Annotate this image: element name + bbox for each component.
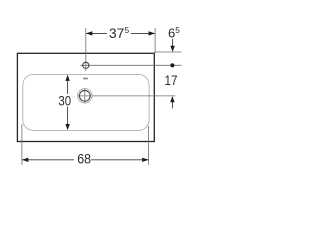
dim 17: dot marker at faucet centerline (170, 63, 174, 67)
drain outer circle (78, 89, 92, 103)
svg-text:5: 5 (125, 25, 130, 35)
faucet hole centerline vertical (extension for 37.5 dim) (85, 28, 87, 71)
dim 6.5: top extension line from rect corner (154, 51, 181, 53)
svg-text:5: 5 (175, 25, 180, 35)
dim 37.5: dimension line right segment (131, 32, 155, 34)
dim 37.5: dimension line left segment (86, 32, 107, 34)
dim 68: right extension line (148, 126, 150, 165)
dim 68: left extension line (21, 124, 23, 165)
dim 30: value label (58, 92, 71, 108)
drain crosshair vertical (84, 89, 86, 103)
svg-text:17: 17 (165, 72, 178, 88)
dim 37.5: value label 37 with superscript 5 (109, 25, 130, 41)
faucet hole centerline horizontal (extension for 6.5 dim) (80, 64, 181, 66)
dim 37.5: left arrowhead (86, 31, 92, 35)
faucet hole circle (83, 62, 89, 68)
overflow slot (83, 78, 88, 80)
svg-text:37: 37 (109, 25, 125, 41)
drain centerline horizontal (extension for 17 dim) (78, 95, 176, 97)
svg-text:6: 6 (168, 26, 175, 41)
dim 30: up arrowhead with tail (65, 75, 69, 94)
svg-text:30: 30 (58, 92, 71, 108)
dim 17: value label (165, 72, 178, 88)
dim 68: dimension line right segment (91, 159, 148, 161)
dim 68: left arrowhead (22, 158, 28, 162)
dim 37.5: right extension line (154, 28, 156, 53)
dim 17: up arrowhead with tail (170, 96, 174, 108)
dim 68: value label (77, 150, 91, 166)
dim 37.5: right arrowhead (149, 31, 155, 35)
svg-text:68: 68 (77, 150, 91, 166)
dim 6.5: down arrowhead with tail (170, 39, 174, 52)
dim 68: dimension line left segment (22, 159, 74, 161)
dim 30: down arrowhead with tail (65, 107, 69, 131)
inner bowl rounded outline (23, 74, 149, 130)
outer basin outline (17, 53, 154, 141)
dim 6.5: value label 6 with superscript 5 (168, 25, 180, 40)
dim 68: right arrowhead (142, 158, 148, 162)
drain inner circle (79, 90, 90, 101)
